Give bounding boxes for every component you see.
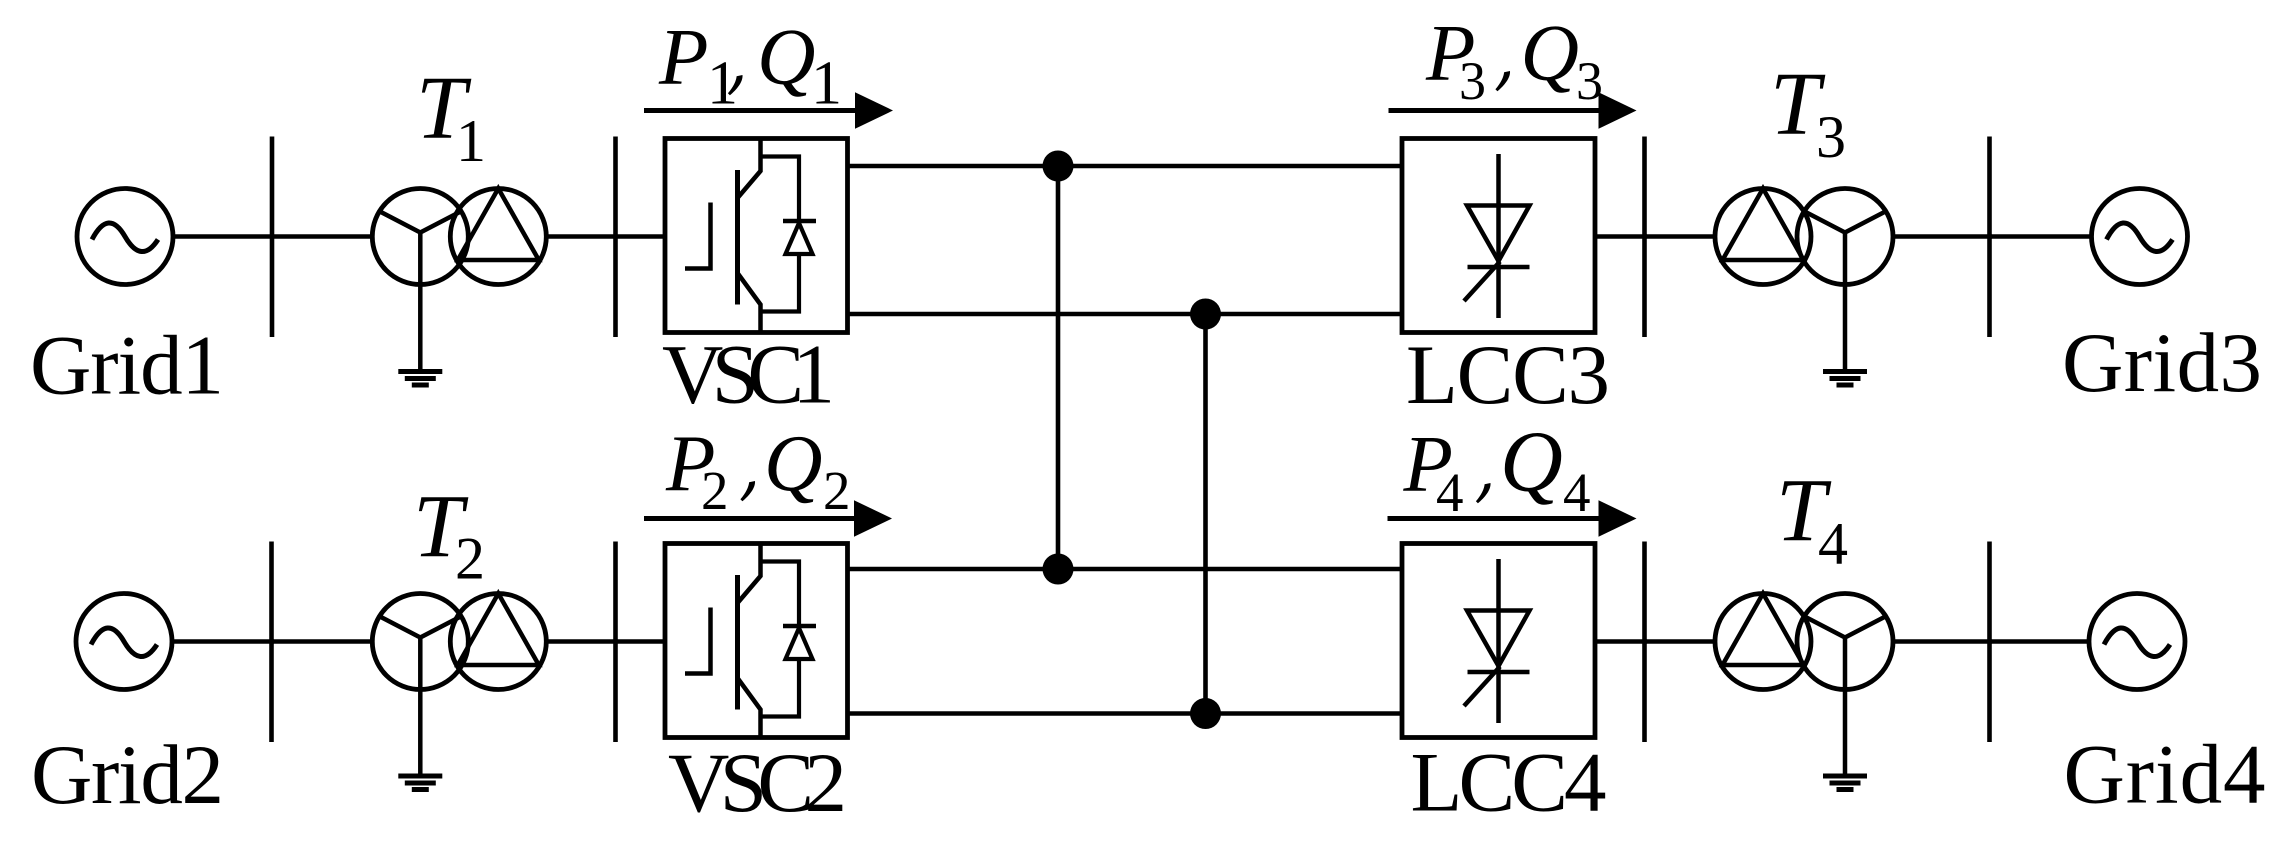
wire VSC2 upper DC pole to LCC4 bbox=[848, 567, 1403, 572]
bus B1 bbox=[270, 137, 275, 338]
svg-text:1: 1 bbox=[811, 50, 842, 118]
freewheeling diode VSC1 bbox=[761, 157, 817, 312]
svg-text:3: 3 bbox=[1816, 104, 1846, 170]
converter LCC3 box bbox=[1402, 139, 1595, 333]
svg-text:Grid4: Grid4 bbox=[2064, 727, 2266, 821]
svg-text:4: 4 bbox=[1436, 462, 1464, 523]
transformer T2 (wye-delta) bbox=[372, 594, 546, 690]
bus B4 bbox=[1987, 137, 1992, 338]
freewheeling diode VSC2 bbox=[761, 562, 817, 717]
label P1,Q1 bbox=[658, 12, 842, 118]
wire bus B3 to T3 bbox=[1645, 234, 1717, 239]
bus B2 bbox=[613, 137, 618, 338]
converter VSC2 box bbox=[665, 544, 848, 738]
svg-text:Q: Q bbox=[1521, 8, 1580, 98]
svg-text:Q: Q bbox=[1500, 413, 1563, 510]
svg-text:VSC2: VSC2 bbox=[668, 736, 847, 830]
svg-text:3: 3 bbox=[1459, 51, 1486, 111]
ground T1 bbox=[398, 285, 442, 386]
bus B6 bbox=[613, 542, 618, 743]
wire bus B1 to T1 bbox=[272, 234, 374, 239]
label T4 bbox=[1776, 462, 1848, 577]
wire bus B8 to Grid4 bbox=[1990, 639, 2091, 644]
arrow P1,Q1 bbox=[644, 92, 893, 129]
wire bus B6 to VSC2 bbox=[616, 639, 667, 644]
bus B3 bbox=[1642, 137, 1647, 338]
converter VSC1 box bbox=[665, 139, 848, 333]
svg-text:VSC1: VSC1 bbox=[662, 327, 835, 421]
AC source Grid4 bbox=[2089, 594, 2185, 690]
wire LCC4 to bus B7 bbox=[1595, 639, 1647, 644]
wire VSC2 lower DC pole to LCC4 bbox=[848, 711, 1403, 716]
converter LCC4 box bbox=[1402, 544, 1595, 738]
wire bus B7 to T4 bbox=[1645, 639, 1717, 644]
node N3 junction dot bbox=[1043, 554, 1074, 585]
bus B7 bbox=[1642, 542, 1647, 743]
label P2,Q2 bbox=[665, 418, 851, 521]
IGBT VSC1 bbox=[685, 139, 761, 333]
thyristor LCC3 bbox=[1464, 154, 1530, 318]
svg-text:2: 2 bbox=[701, 460, 729, 521]
label P4,Q4 bbox=[1403, 413, 1591, 524]
svg-text:Q: Q bbox=[764, 418, 823, 508]
wire bus B4 to Grid3 bbox=[1990, 234, 2093, 239]
wire VSC1 upper DC pole to LCC3 bbox=[848, 164, 1403, 169]
svg-text:LCC4: LCC4 bbox=[1411, 735, 1607, 829]
label T2 bbox=[413, 477, 485, 591]
wire bus B2 to VSC1 bbox=[616, 234, 667, 239]
AC source Grid2 bbox=[76, 594, 172, 690]
AC source Grid1 bbox=[77, 189, 173, 285]
wire bus B5 to T2 bbox=[272, 639, 375, 644]
AC source Grid3 bbox=[2092, 189, 2188, 285]
svg-text:LCC3: LCC3 bbox=[1406, 328, 1610, 422]
svg-text:Grid2: Grid2 bbox=[31, 728, 224, 822]
label P3,Q3 bbox=[1425, 8, 1603, 112]
ground T4 bbox=[1823, 690, 1867, 790]
svg-text:Q: Q bbox=[757, 12, 816, 102]
bus B5 bbox=[269, 542, 274, 743]
wire T1 to bus B2 bbox=[546, 234, 616, 239]
node N2 junction dot bbox=[1190, 299, 1221, 330]
wire DC tie N1 to N3 bbox=[1056, 166, 1061, 569]
svg-text:4: 4 bbox=[1818, 511, 1848, 577]
svg-text:1: 1 bbox=[456, 108, 486, 174]
transformer T1 (wye-delta) bbox=[372, 189, 546, 285]
svg-text:Grid1: Grid1 bbox=[30, 319, 224, 413]
node N4 junction dot bbox=[1190, 698, 1221, 729]
label T3 bbox=[1770, 55, 1846, 170]
svg-text:1: 1 bbox=[707, 50, 738, 118]
transformer T4 (delta-wye) bbox=[1715, 594, 1893, 690]
wire Grid1 to bus B1 bbox=[173, 234, 274, 239]
arrow P2,Q2 bbox=[644, 500, 892, 537]
wire LCC3 to bus B3 bbox=[1595, 234, 1647, 239]
label T1 bbox=[416, 59, 486, 174]
wire DC tie N2 to N4 bbox=[1203, 314, 1208, 714]
node N1 junction dot bbox=[1043, 151, 1074, 182]
wire T2 to bus B6 bbox=[546, 639, 616, 644]
wire T4 to bus B8 bbox=[1893, 639, 1992, 644]
bus B8 bbox=[1987, 542, 1992, 743]
wire T3 to bus B4 bbox=[1893, 234, 1992, 239]
svg-text:P: P bbox=[658, 12, 708, 102]
IGBT VSC2 bbox=[685, 544, 761, 738]
svg-text:2: 2 bbox=[455, 526, 485, 592]
ground T2 bbox=[398, 690, 442, 790]
svg-text:4: 4 bbox=[1563, 462, 1591, 523]
ground T3 bbox=[1823, 285, 1867, 386]
svg-text:2: 2 bbox=[823, 460, 851, 521]
wire Grid2 to bus B5 bbox=[172, 639, 274, 644]
thyristor LCC4 bbox=[1464, 559, 1530, 723]
svg-text:Grid3: Grid3 bbox=[2062, 316, 2262, 410]
arrow P4,Q4 bbox=[1388, 500, 1637, 537]
arrow P3,Q3 bbox=[1389, 92, 1637, 129]
wire VSC1 lower DC pole to LCC3 bbox=[848, 312, 1403, 317]
transformer T3 (delta-wye) bbox=[1715, 189, 1893, 285]
